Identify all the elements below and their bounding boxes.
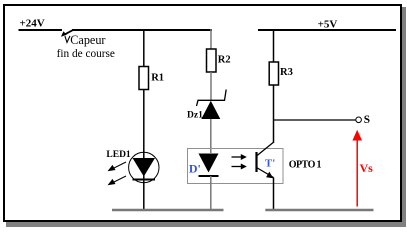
svg-text:LED1: LED1: [106, 150, 131, 160]
svg-text:Vs: Vs: [360, 161, 374, 175]
switch S1 Capteur fin de course (blade with actuation arrow): [61, 30, 73, 42]
svg-text:T': T': [265, 157, 275, 169]
resistor R2: [207, 49, 217, 72]
wire zener to opto diode (gray): [210, 119, 212, 153]
optocoupler OPTO1 package box: [188, 149, 284, 184]
wire opto diode to ground rail (gray): [210, 176, 212, 210]
LED LED1: [129, 152, 159, 182]
wire R3 to collector: [273, 85, 275, 143]
wire LED1 to ground rail: [143, 182, 145, 210]
wire +5V rail: [258, 29, 396, 31]
LED1 emission arrow 2: [108, 176, 127, 185]
wire +24V rail left segment: [19, 29, 63, 31]
phototransistor T': [257, 142, 274, 178]
svg-text:+24V: +24V: [20, 17, 45, 29]
svg-text:D': D': [189, 161, 201, 175]
wire R1 branch from rail: [143, 30, 145, 67]
opto light transfer arrow 1: [232, 154, 247, 160]
wire emitter to ground rail: [273, 178, 275, 211]
ground rail right: [265, 209, 373, 212]
wire R2 to zener (gray): [210, 72, 212, 100]
wire R1 to LED1: [143, 90, 145, 154]
svg-text:Capeur: Capeur: [70, 33, 105, 47]
zener diode Dz1: [197, 90, 227, 120]
switch S1 name label: [57, 33, 115, 60]
Vs arrow (red): [352, 130, 362, 207]
svg-text:OPTO1: OPTO1: [289, 159, 322, 170]
svg-text:R2: R2: [218, 54, 231, 65]
svg-text:R1: R1: [151, 72, 164, 83]
opto LED D': [199, 154, 219, 177]
wire +5V rail to R3: [273, 30, 275, 62]
ground rail left: [112, 209, 224, 212]
wire +24V rail right segment: [72, 29, 212, 31]
LED1 emission arrow 1: [108, 162, 127, 171]
svg-text:fin de course: fin de course: [57, 48, 115, 60]
svg-text:S: S: [364, 114, 370, 126]
opto light transfer arrow 2: [232, 164, 247, 170]
svg-text:+5V: +5V: [318, 19, 338, 31]
svg-text:R3: R3: [280, 67, 293, 78]
wire rail corner to R2 (gray): [210, 29, 212, 49]
node S terminal: [356, 117, 362, 123]
wire node S branch: [274, 119, 356, 121]
svg-text:Dz1: Dz1: [187, 110, 203, 120]
resistor R3: [269, 62, 278, 85]
resistor R1: [139, 67, 149, 90]
